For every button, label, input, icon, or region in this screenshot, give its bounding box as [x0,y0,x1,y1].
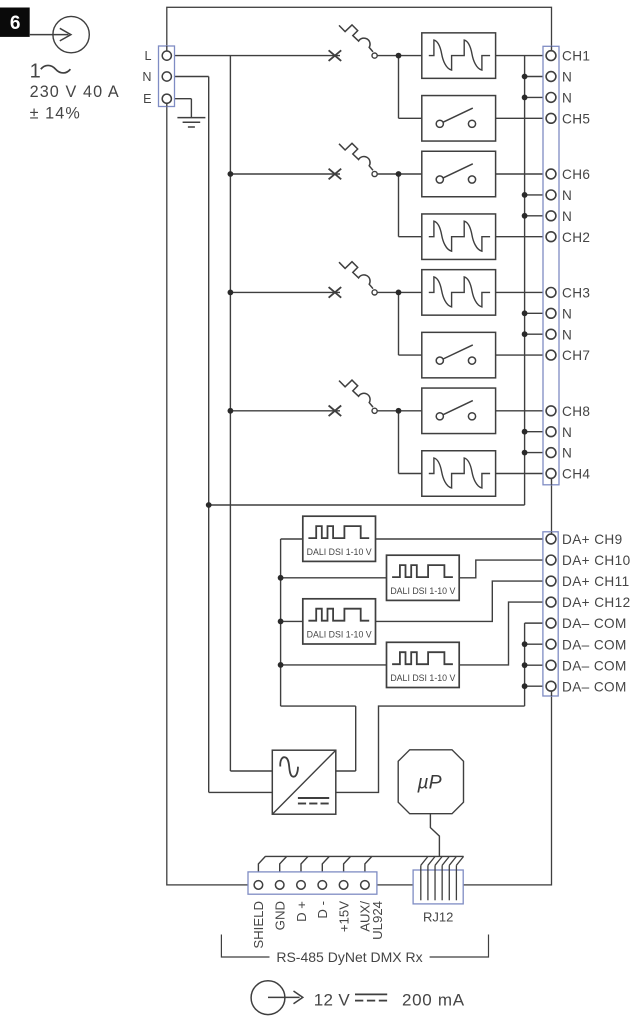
svg-text:12 V: 12 V [314,991,351,1010]
svg-text:N: N [562,209,572,224]
svg-text:DALI DSI 1-10 V: DALI DSI 1-10 V [390,586,455,596]
svg-text:CH1: CH1 [562,49,590,64]
svg-text:CH2: CH2 [562,230,590,245]
svg-text:DALI DSI 1-10 V: DALI DSI 1-10 V [307,630,372,640]
svg-text:RS-485 DyNet DMX Rx: RS-485 DyNet DMX Rx [276,949,422,965]
svg-text:N: N [562,327,572,342]
svg-text:UL924: UL924 [370,901,385,940]
svg-text:N: N [562,91,572,106]
svg-text:D +: D + [294,901,309,922]
svg-text:200 mA: 200 mA [402,991,465,1010]
svg-text:N: N [562,306,572,321]
svg-text:N: N [562,446,572,461]
svg-text:L: L [144,49,151,63]
svg-text:CH8: CH8 [562,404,590,419]
svg-text:DALI DSI 1-10 V: DALI DSI 1-10 V [307,547,372,557]
svg-text:± 14%: ± 14% [30,105,81,123]
svg-text:E: E [143,92,151,106]
svg-text:CH3: CH3 [562,286,590,301]
svg-text:D -: D - [315,901,330,919]
svg-text:DA– COM: DA– COM [562,637,627,652]
svg-text:GND: GND [273,901,288,930]
svg-text:N: N [562,425,572,440]
svg-text:CH6: CH6 [562,167,590,182]
svg-text:DA+ CH12: DA+ CH12 [562,595,631,610]
svg-text:DA– COM: DA– COM [562,616,627,631]
svg-text:SHIELD: SHIELD [251,901,266,949]
svg-text:CH7: CH7 [562,348,590,363]
svg-text:DA+ CH9: DA+ CH9 [562,532,623,547]
svg-text:6: 6 [10,13,21,34]
svg-text:CH4: CH4 [562,467,590,482]
svg-text:230 V 40 A: 230 V 40 A [30,83,120,101]
svg-text:1: 1 [30,61,41,83]
svg-text:N: N [142,70,151,84]
svg-text:N: N [562,188,572,203]
svg-text:DALI DSI 1-10 V: DALI DSI 1-10 V [390,673,455,683]
svg-text:N: N [562,70,572,85]
svg-text:CH5: CH5 [562,111,590,126]
svg-text:DA– COM: DA– COM [562,658,627,673]
svg-text:µP: µP [416,772,441,794]
svg-text:DA+ CH11: DA+ CH11 [562,574,630,589]
svg-text:+15V: +15V [336,901,351,932]
svg-text:DA+ CH10: DA+ CH10 [562,553,631,568]
svg-text:DA– COM: DA– COM [562,679,627,694]
svg-text:RJ12: RJ12 [423,910,453,925]
